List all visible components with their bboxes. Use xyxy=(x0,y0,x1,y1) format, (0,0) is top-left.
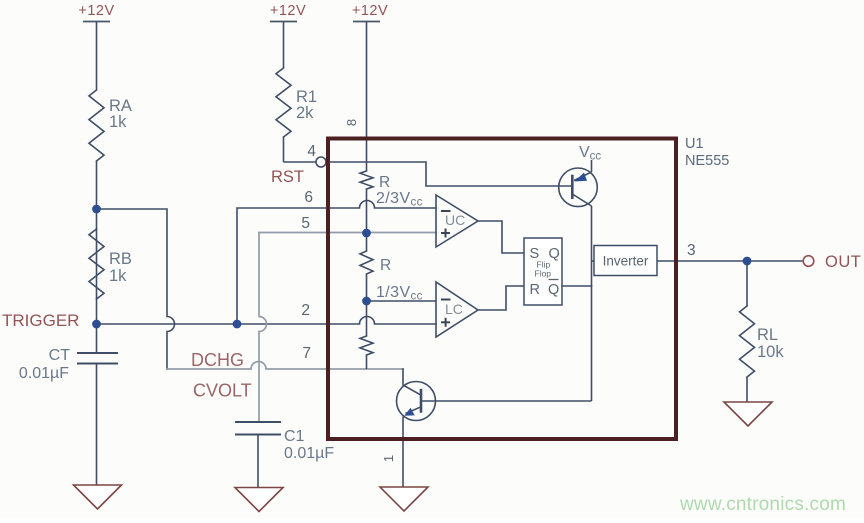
svg-text:Inverter: Inverter xyxy=(603,254,649,269)
svg-text:R: R xyxy=(379,174,390,191)
svg-text:C1: C1 xyxy=(284,428,305,445)
svg-text:1: 1 xyxy=(381,455,396,462)
svg-text:RL: RL xyxy=(757,326,778,344)
svg-text:4: 4 xyxy=(307,143,316,160)
svg-text:7: 7 xyxy=(302,345,311,362)
svg-text:www.cntronics.com: www.cntronics.com xyxy=(679,494,846,515)
svg-text:DCHG: DCHG xyxy=(191,350,244,370)
svg-text:UC: UC xyxy=(445,212,465,228)
svg-text:Flop: Flop xyxy=(535,269,552,279)
svg-text:TRIGGER: TRIGGER xyxy=(2,311,79,330)
svg-text:2k: 2k xyxy=(296,104,314,122)
svg-text:0.01µF: 0.01µF xyxy=(19,365,69,382)
svg-text:CVOLT: CVOLT xyxy=(193,381,252,401)
svg-text:5: 5 xyxy=(301,215,310,232)
svg-text:3: 3 xyxy=(687,242,696,259)
svg-text:RST: RST xyxy=(271,168,304,186)
svg-text:8: 8 xyxy=(344,119,359,126)
svg-text:1k: 1k xyxy=(109,113,127,131)
svg-text:LC: LC xyxy=(445,301,463,317)
svg-text:6: 6 xyxy=(304,189,313,206)
svg-text:RB: RB xyxy=(109,250,132,268)
svg-text:0.01µF: 0.01µF xyxy=(284,445,334,462)
svg-text:10k: 10k xyxy=(757,343,784,361)
svg-text:R: R xyxy=(380,257,391,274)
svg-text:R: R xyxy=(530,282,540,298)
svg-text:2: 2 xyxy=(301,302,310,319)
svg-text:+12V: +12V xyxy=(78,3,114,19)
svg-text:Q: Q xyxy=(548,282,559,298)
svg-text:CT: CT xyxy=(49,347,71,364)
svg-text:U1: U1 xyxy=(685,136,704,152)
svg-text:OUT: OUT xyxy=(825,253,861,271)
svg-text:1k: 1k xyxy=(109,267,127,285)
svg-text:+12V: +12V xyxy=(270,3,306,19)
svg-text:+12V: +12V xyxy=(352,3,388,19)
svg-text:NE555: NE555 xyxy=(685,153,729,169)
